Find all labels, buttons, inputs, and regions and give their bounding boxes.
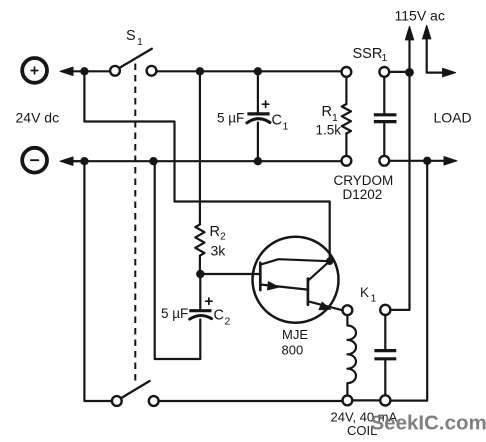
wire base lead bbox=[200, 273, 260, 275]
svg-text:1: 1 bbox=[382, 52, 388, 64]
relay K1 contact terminal top bbox=[380, 305, 390, 315]
node R2 top tap bbox=[196, 67, 204, 75]
SSR1 output terminal top bbox=[379, 67, 389, 77]
relay K1 coil terminal top bbox=[343, 305, 353, 315]
svg-text:D1202: D1202 bbox=[343, 187, 383, 202]
terminal - (24V dc negative) bbox=[22, 148, 47, 173]
wire relay rail bbox=[159, 399, 381, 402]
svg-text:24V dc: 24V dc bbox=[16, 110, 60, 126]
capacitor C1 plates bbox=[247, 112, 269, 115]
node C1 top tap bbox=[254, 67, 262, 75]
wire K1 contact stubs bbox=[384, 315, 386, 395]
wire +24V feed to collector bbox=[84, 71, 329, 261]
svg-text:C: C bbox=[214, 308, 224, 324]
wire R2 feed from top rail bbox=[199, 71, 201, 224]
node minus junction bbox=[80, 157, 88, 165]
wire C2 string bbox=[155, 161, 201, 359]
relay K1 coil terminal bottom bbox=[343, 396, 353, 406]
svg-text:5 µF: 5 µF bbox=[217, 111, 244, 126]
svg-text:S: S bbox=[126, 28, 136, 44]
wire SSR output top to hot node bbox=[389, 71, 409, 73]
svg-text:1: 1 bbox=[137, 36, 143, 48]
switch S1 lower pole bbox=[112, 396, 122, 406]
SSR1 input terminal top bbox=[342, 67, 352, 77]
transistor Q1 second collector bbox=[309, 262, 328, 279]
svg-text:2: 2 bbox=[225, 316, 231, 328]
svg-text:1: 1 bbox=[283, 121, 289, 133]
wire top rail from switch to SSR1 bbox=[156, 70, 341, 72]
svg-text:SSR: SSR bbox=[353, 46, 383, 62]
svg-text:5 µF: 5 µF bbox=[161, 306, 188, 321]
transistor Q1 first collector bbox=[261, 259, 328, 264]
wire 115V hot riser bbox=[408, 33, 410, 72]
wire SSR output stubs bbox=[383, 77, 385, 156]
arrow 115V up 1 bbox=[405, 26, 413, 40]
transistor Q1 second base bar bbox=[307, 279, 310, 305]
wire minus rail down to lower switch bbox=[84, 161, 112, 401]
svg-text:1.5k: 1.5k bbox=[316, 123, 342, 138]
svg-text:800: 800 bbox=[282, 343, 304, 358]
arrow to + terminal bbox=[60, 67, 73, 75]
wire top rail left of switch bbox=[84, 70, 110, 72]
svg-text:CRYDOM: CRYDOM bbox=[334, 173, 394, 188]
transistor Q1 first emitter bbox=[261, 285, 308, 290]
inductor K1 coil bbox=[347, 315, 356, 395]
resistor R1 1.5k bbox=[342, 104, 351, 134]
transistor Q1 first base bar bbox=[259, 263, 262, 290]
wire bottom rail (minus) bbox=[71, 160, 342, 162]
transistor Q1 second emitter bbox=[309, 302, 343, 311]
svg-text:R: R bbox=[210, 224, 220, 240]
node base junction bbox=[196, 270, 204, 278]
node C1 bottom tap bbox=[254, 157, 262, 165]
SSR1 output terminal bottom bbox=[379, 156, 389, 166]
node C2 return tap bbox=[149, 157, 157, 165]
wire C1 string bbox=[257, 71, 259, 161]
svg-text:2: 2 bbox=[220, 231, 226, 243]
svg-text:1: 1 bbox=[371, 293, 377, 305]
capacitor C2 plates bbox=[189, 309, 211, 312]
node hot junction bbox=[405, 68, 414, 77]
node load return junction bbox=[423, 157, 431, 165]
svg-text:3k: 3k bbox=[211, 243, 227, 259]
transistor Q1 MJE800 circle bbox=[253, 237, 339, 323]
arrow load return right bbox=[444, 157, 457, 165]
svg-text:R: R bbox=[322, 104, 332, 120]
wire hot line down to K1 contact bbox=[390, 72, 409, 310]
arrow 115V up 2 with load feed bbox=[427, 32, 444, 73]
wire load return down to relay rail bbox=[390, 161, 427, 401]
node top-left junction bbox=[80, 67, 88, 75]
SSR1 output contact plates bbox=[374, 115, 397, 122]
label C1 plus bbox=[262, 101, 268, 107]
switch S1 upper pole bbox=[110, 66, 120, 76]
relay K1 contact terminal bottom bbox=[380, 395, 390, 405]
svg-text:LOAD: LOAD bbox=[434, 110, 472, 126]
svg-text:C: C bbox=[272, 113, 282, 129]
svg-text:K: K bbox=[360, 285, 369, 300]
SSR1 input terminal bottom bbox=[342, 156, 352, 166]
node collector junction bbox=[326, 257, 334, 265]
resistor R2 3k bbox=[195, 224, 204, 274]
relay K1 contact plates bbox=[374, 351, 396, 359]
svg-text:MJE: MJE bbox=[282, 327, 308, 342]
svg-text:SeekIC.com: SeekIC.com bbox=[371, 412, 486, 435]
label C2 plus bbox=[206, 298, 212, 304]
terminal + (24V dc positive) bbox=[22, 58, 47, 83]
dashed gang line of S1 bbox=[134, 64, 136, 381]
svg-text:115V ac: 115V ac bbox=[395, 8, 445, 24]
wire SSR output bottom to load return bbox=[389, 160, 444, 162]
wire SSR input stubs bbox=[345, 77, 347, 156]
arrow to - terminal bbox=[60, 157, 73, 165]
